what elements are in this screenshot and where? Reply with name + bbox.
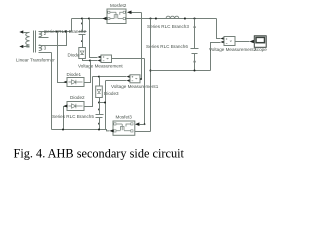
svg-text:scope: scope (255, 47, 268, 52)
arrow into Mosfet3 gate (135, 122, 139, 126)
node diode1 riser joins VM minus wire (89, 60, 91, 62)
transformer TR1 primary port arrows (19, 30, 23, 48)
svg-text:Series RLC Branch3: Series RLC Branch3 (147, 24, 189, 29)
diode D3 vertical block (96, 77, 103, 103)
wire Diode2 right up to node wire (85, 77, 93, 107)
wire winding2-top to riser (49, 31, 72, 33)
wire Mosfet3 gate from gate net (140, 124, 145, 126)
arrow into Mosfet3 left port (110, 129, 114, 132)
node top rail capacitor branch6 (194, 18, 196, 20)
wire Diode2 left feed from bottom rail (64, 107, 67, 130)
node gate net at Mosfet3 gate wire (144, 123, 146, 125)
mid rail (151, 70, 211, 72)
node bottom rail capacitor branch5 (98, 129, 100, 131)
svg-text:Series RLC Branch5: Series RLC Branch5 (52, 114, 94, 119)
node VM1 minus column crossing (104, 102, 106, 104)
capacitor C-branch5 plates (96, 115, 104, 118)
svg-text:Mosfet2: Mosfet2 (110, 3, 127, 8)
wire VM1 minus column (106, 81, 127, 130)
arrow into Mosfet2 left port (103, 17, 107, 20)
wire top rail corner to VM2 plus (217, 19, 221, 39)
wire diode bottom to VM minus (83, 59, 98, 61)
voltage measurement VM1 block (130, 75, 140, 83)
capacitor C-branch6 top lead (194, 19, 196, 49)
capacitor C-branch2 bottom lead (82, 35, 84, 48)
capacitor C-branch5 port marks (98, 109, 100, 125)
capacitor C-branch5 bottom lead (99, 118, 101, 130)
capacitor C-branch6 bottom lead (194, 54, 196, 71)
node bottom rail diode2 feed (62, 129, 64, 131)
svg-text:Diode2: Diode2 (70, 95, 85, 100)
wire Mosfet3 right-bottom to power net (135, 131, 151, 133)
power net vertical (150, 19, 152, 132)
mosfet M2 block (107, 9, 126, 24)
wire mid rail up to VM2 minus (211, 43, 221, 71)
mosfet M3 block (113, 121, 135, 135)
capacitor C-branch6 plates (191, 49, 199, 54)
arrow into Mosfet2 gate (127, 11, 132, 15)
diode D2 block (67, 102, 84, 111)
bottom rail (52, 130, 110, 131)
arrow into VM minus (98, 59, 102, 62)
node top rail power net (150, 18, 152, 20)
inductor L-branch3 (166, 16, 179, 18)
svg-text:Mosfet3: Mosfet3 (116, 114, 133, 119)
node power net mid rail (150, 70, 152, 72)
capacitor C-branch6 port marks (194, 26, 196, 62)
arrow into VM plus (98, 55, 102, 58)
capacitor C-branch5 top lead (99, 103, 101, 115)
svg-text:Diode1: Diode1 (67, 72, 82, 77)
wire winding3-top link (49, 32, 67, 46)
svg-text:Linear Transformer: Linear Transformer (16, 58, 55, 63)
node top rail capacitor branch2 (81, 18, 83, 20)
voltage measurement VM block (101, 55, 112, 63)
arrow into VM2 minus (221, 40, 225, 43)
inductor L-branch3 port marks (155, 18, 186, 20)
transformer TR1 secondary winding 2 (39, 32, 49, 38)
wire riser to top rail (71, 19, 73, 32)
node mid rail capacitor branch6 (194, 70, 196, 72)
wire VM plus branch (90, 19, 98, 58)
svg-text:Diode3: Diode3 (104, 91, 119, 96)
arrow into VM2 plus (221, 37, 225, 40)
wire VM output to gate net (112, 58, 145, 60)
capacitor C-branch2 top lead (82, 19, 84, 32)
node top rail VM+ branch (88, 18, 90, 20)
top rail left segment (72, 18, 107, 20)
arrow into Diode2 (64, 104, 68, 107)
arrow into VM1 plus (127, 75, 131, 78)
diode D1 block (67, 78, 84, 87)
voltage measurement VM2 block (224, 37, 235, 46)
svg-text:Diode: Diode (68, 52, 80, 57)
svg-text:Fig. 4. AHB secondary side cir: Fig. 4. AHB secondary side circuit (14, 147, 185, 161)
top rail right segment (127, 18, 217, 20)
transformer TR1 core (34, 31, 36, 53)
node diode3 top (98, 76, 100, 78)
wire Diode1 right up to VM minus wire (85, 61, 91, 83)
node winding3 branch on winding2 wire (65, 31, 67, 33)
svg-text:Series RLC Branch2: Series RLC Branch2 (44, 29, 86, 34)
svg-text:Series RLC Branch6: Series RLC Branch6 (146, 44, 188, 49)
node diode3 bottom (98, 102, 100, 104)
wire node row to VM1 plus (93, 76, 127, 78)
wire VM1 output to gate net (141, 79, 142, 81)
wire VM2 output to scope (236, 41, 250, 43)
diode D1 feed wire from winding2 node (58, 32, 67, 83)
wire winding3-bottom down to bottom rail (51, 53, 53, 130)
diode D vertical block (79, 48, 86, 59)
svg-text:Voltage Measurement2: Voltage Measurement2 (209, 47, 257, 52)
wire diode3 bottom to VM1-minus column (100, 102, 106, 104)
wire Mosfet2 gate from gate net (132, 12, 142, 14)
scope block (254, 36, 266, 48)
arrow into Diode1 (64, 80, 68, 83)
node VM1 output joins gate net (140, 78, 142, 80)
arrow into scope (250, 40, 254, 44)
svg-text:Voltage Measurement: Voltage Measurement (78, 64, 123, 69)
gate net vertical from VM output to Mosfet3 gate (144, 59, 146, 125)
capacitor C-branch2 plates (79, 32, 87, 35)
capacitor C-branch2 port marks (81, 23, 83, 42)
gate net vertical from VM1 output to Mosfet2 gate (141, 13, 143, 80)
arrow into VM1 minus (127, 79, 131, 82)
node diode1 branch on winding2 wire (56, 31, 58, 33)
transformer TR1 left primary coil (24, 32, 30, 47)
transformer TR1 secondary winding 3 (39, 45, 52, 53)
svg-text:Voltage Measurement1: Voltage Measurement1 (111, 84, 159, 89)
svg-text:3: 3 (44, 45, 47, 50)
